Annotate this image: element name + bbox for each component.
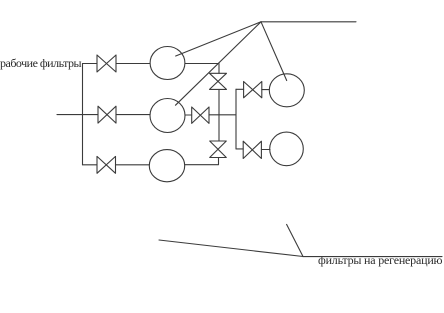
wire V3 to right vertical xyxy=(209,114,236,116)
wire VV2 bottom leg to row3 xyxy=(185,158,219,165)
wire left manifold vertical xyxy=(82,64,84,165)
valve VV1 vertical xyxy=(210,73,227,89)
wire VV1 to VV2 vertical xyxy=(218,89,220,141)
filter F2 xyxy=(150,99,185,133)
wire V6 to filter F3 xyxy=(116,164,150,166)
label: фильтры на регенерацию xyxy=(318,253,442,268)
node P top junction: horizontal header line xyxy=(261,21,356,23)
wire V4 to filter F4 xyxy=(262,89,270,91)
wire V5 to filter F5 xyxy=(261,149,270,151)
valve V3 xyxy=(192,107,209,123)
valve V1 xyxy=(97,55,116,72)
valve V5 xyxy=(243,141,261,158)
wire top corner to valve V4 xyxy=(236,88,244,90)
wire F2 to valve V3 xyxy=(185,114,192,116)
wire row1 manifold to valve V1 xyxy=(83,63,98,65)
wire V1 to filter F1 xyxy=(116,63,150,65)
wire diagonal P to filter F1 xyxy=(176,22,261,56)
wire row3 manifold to valve V6 xyxy=(83,164,98,166)
wire bottom corner to valve V5 xyxy=(236,148,243,150)
filter F5 xyxy=(270,132,304,166)
valve V6 xyxy=(97,156,116,173)
valve VV2 vertical xyxy=(210,141,227,158)
valve V4 xyxy=(244,82,262,98)
wire V2 to filter F2 xyxy=(116,114,150,116)
wire row2 inlet stub xyxy=(57,114,98,116)
wire regeneration long diagonal xyxy=(159,240,303,257)
wire regeneration horizontal xyxy=(303,256,442,258)
wire regeneration short diagonal xyxy=(287,224,303,256)
filter F3 xyxy=(149,150,184,182)
wire F1 right to down leg xyxy=(185,64,219,74)
wire diagonal P to filter F2 xyxy=(176,22,262,105)
filter F4 xyxy=(269,74,304,107)
filter F1 xyxy=(150,47,185,80)
label: рабочие фильтры xyxy=(0,56,81,71)
wire right vertical x236 xyxy=(235,89,237,149)
wire diagonal P to filter F4 xyxy=(261,22,287,81)
valve V2 xyxy=(98,106,116,123)
